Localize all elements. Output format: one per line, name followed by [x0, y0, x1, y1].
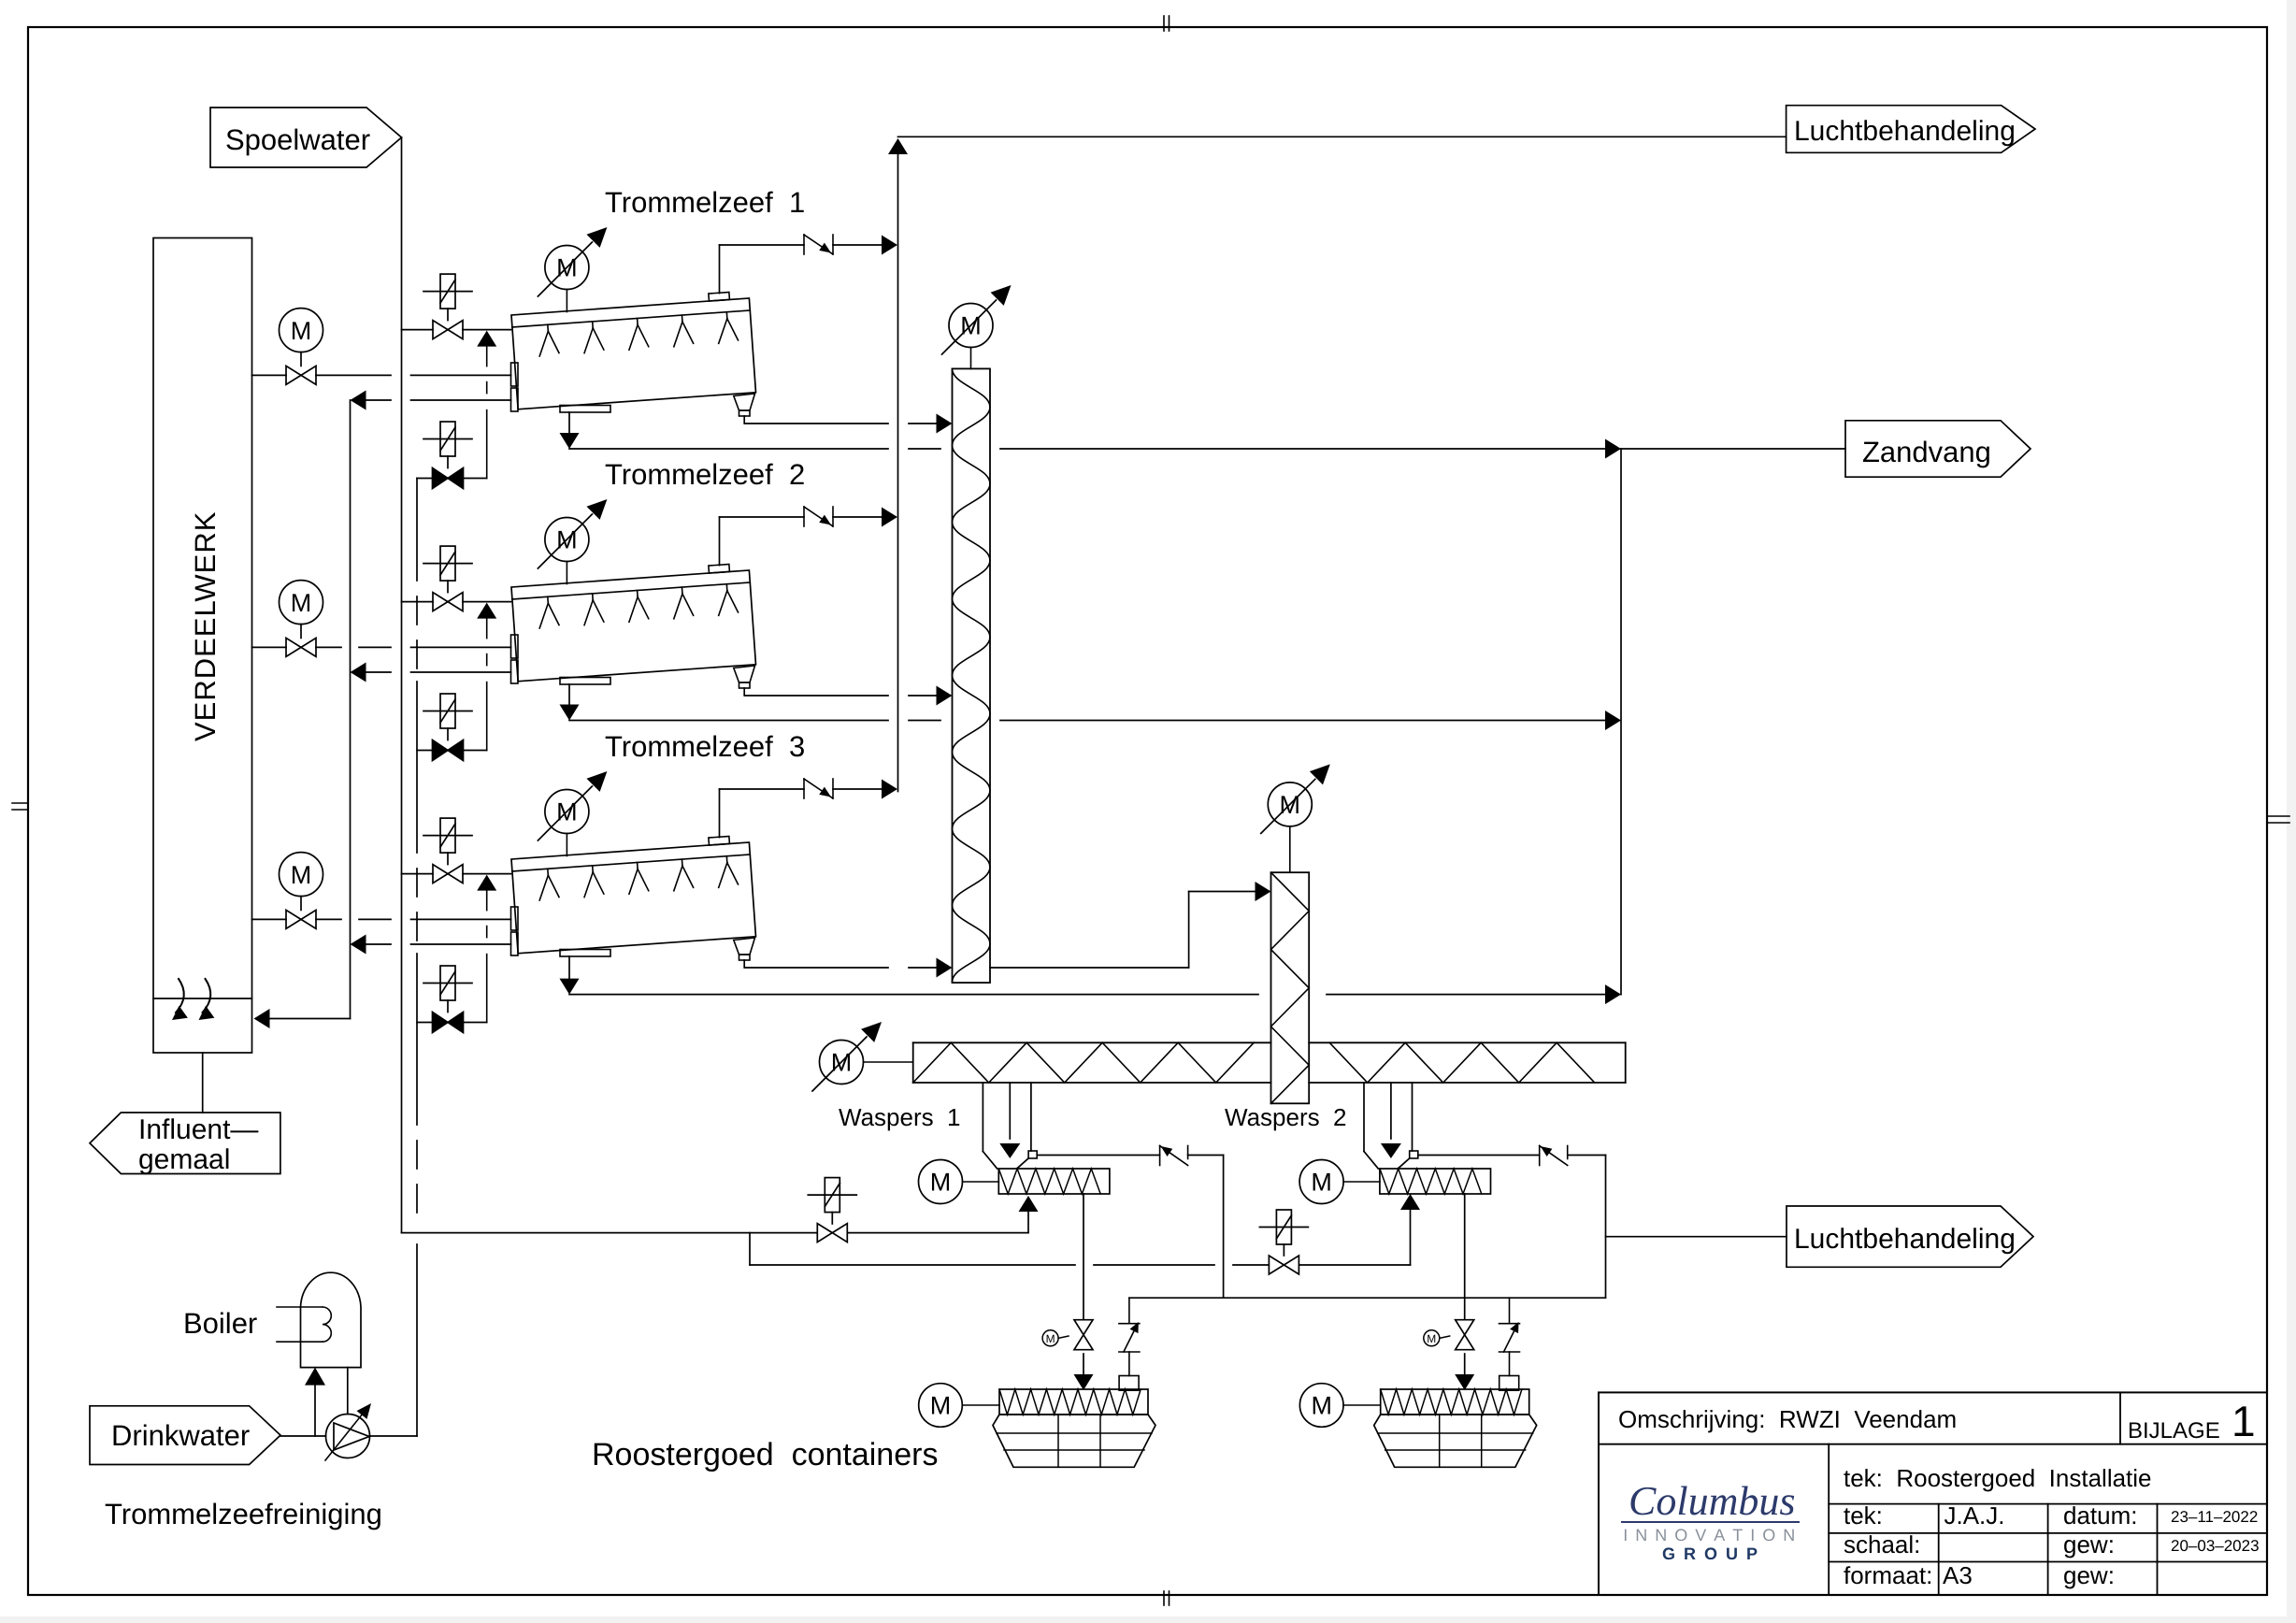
- boiler B1: [277, 1272, 361, 1367]
- svg-text:gew:: gew:: [2063, 1561, 2115, 1589]
- svg-text:M: M: [930, 1169, 952, 1197]
- svg-text:gemaal: gemaal: [138, 1144, 230, 1175]
- trommelzeef unit 1 drum sieve: [510, 291, 755, 416]
- wire sieved water drain trommelzeef 3: [560, 956, 580, 995]
- wire motor stem trommelzeef 2: [566, 562, 567, 584]
- valve V31 distribution from verdeelwerk: [252, 910, 511, 928]
- roostergoed container K1: [993, 1389, 1155, 1467]
- wire motor stem trommelzeef 3: [566, 834, 567, 856]
- wire water line to zandvang 2: [569, 711, 1621, 730]
- valve V13 reiniging flush valve (closed): [417, 422, 487, 489]
- motor M9 conveyor drive: [812, 1022, 882, 1091]
- motor M7 screw S1: [942, 285, 1012, 354]
- wire return line trommelzeef 3: [351, 935, 511, 955]
- motor M21 on distribution valve: [280, 581, 323, 639]
- wire motor stem trommelzeef 1: [566, 290, 567, 312]
- check valve CV1 trommelzeef 1 air line: [804, 235, 833, 254]
- wire wasper-1 flush riser + arrow: [1019, 1196, 1039, 1233]
- fold mark top: [1164, 16, 1170, 31]
- title text tek roostergoed installatie: [1844, 1464, 2152, 1492]
- svg-text:M: M: [1427, 1332, 1436, 1345]
- svg-text:I N N O V A T I O N: I N N O V A T I O N: [1623, 1526, 1797, 1544]
- wire zandvang collector vertical: [1621, 449, 1845, 995]
- wire to luchtbehandeling bottom flag: [1606, 1236, 1787, 1238]
- pump P1: [325, 1403, 371, 1460]
- motor m-W2 container valve actuator: [1424, 1330, 1450, 1346]
- svg-text:M: M: [291, 317, 312, 345]
- svg-text:Omschrijving: RWZI Veendam: Omschrijving: RWZI Veendam: [1618, 1405, 1957, 1433]
- wire pump to boiler coil return: [347, 1368, 349, 1415]
- svg-text:VERDEELWERK: VERDEELWERK: [189, 511, 222, 741]
- valve V23 reiniging flush valve (closed): [417, 694, 487, 761]
- valve V-W2 container inlet motor valve: [1456, 1320, 1474, 1350]
- wire sieved water drain trommelzeef 2: [560, 684, 580, 721]
- wire spray riser arrow trommelzeef 3: [477, 875, 496, 1023]
- motor M11 wasper W2: [1299, 1160, 1343, 1204]
- wire air collection header: [1129, 1297, 1606, 1299]
- title row schaal: [1844, 1530, 2260, 1558]
- svg-text:schaal:: schaal:: [1844, 1530, 1920, 1558]
- svg-text:Luchtbehandeling: Luchtbehandeling: [1794, 116, 2016, 147]
- wire motor stem screw S1: [970, 348, 972, 369]
- check valve CV2 trommelzeef 2 air line: [804, 507, 833, 526]
- title row tek: [1844, 1501, 2258, 1530]
- svg-text:formaat:: formaat:: [1844, 1561, 1932, 1589]
- svg-text:BIJLAGE: BIJLAGE: [2128, 1418, 2220, 1443]
- motor M13 container K2 screw: [1299, 1384, 1380, 1428]
- label Trommelzeef 1: [605, 186, 805, 219]
- motor M8 screw S2: [1261, 764, 1330, 833]
- wire water line to zandvang 3: [569, 984, 1621, 1004]
- title text BIJLAGE 1: [2128, 1397, 2256, 1445]
- svg-text:J.A.J.: J.A.J.: [1944, 1501, 2004, 1530]
- roostergoed container K2: [1374, 1389, 1537, 1467]
- logo Columbus script: [1622, 1478, 1799, 1524]
- fold mark left: [12, 803, 28, 810]
- svg-text:Waspers 1: Waspers 1: [839, 1103, 961, 1131]
- title text omschrijving: [1618, 1405, 1957, 1433]
- horizontal screenings conveyor C1: [913, 1042, 1626, 1083]
- motor M31 on distribution valve: [280, 853, 323, 911]
- flag Drinkwater: [90, 1406, 280, 1465]
- wire air outlet trommelzeef 3: [720, 780, 898, 838]
- logo GROUP: [1662, 1544, 1759, 1563]
- svg-text:gew:: gew:: [2063, 1530, 2115, 1558]
- flag Zandvang: [1845, 421, 2031, 477]
- valve wasper-1 flush solenoid valve V7: [808, 1178, 856, 1242]
- wire motor stem screw S2: [1289, 826, 1291, 872]
- wire screenings line trommelzeef 1 to screw: [744, 414, 952, 434]
- label Roostergoed containers: [592, 1437, 938, 1472]
- wire sieved water drain trommelzeef 1: [560, 412, 580, 449]
- label Trommelzeef 2: [605, 458, 805, 491]
- motor M12 trommelzeef 1 drive: [538, 227, 607, 296]
- relief valve container W1: [1119, 1298, 1140, 1390]
- verdeelwerk inlet curved arrows: [172, 979, 214, 1020]
- label Trommelzeef 3: [605, 730, 805, 763]
- svg-text:G R O U P: G R O U P: [1662, 1544, 1759, 1563]
- title block frame: [1599, 1392, 2267, 1595]
- check valve CV3 trommelzeef 3 air line: [804, 779, 833, 798]
- wire wasper W2 overflow line: [1419, 1156, 1606, 1299]
- svg-text:Trommelzeef 1: Trommelzeef 1: [605, 186, 805, 219]
- flag Luchtbehandeling top: [1787, 106, 2035, 153]
- valve V22 spoelwater spray solenoid valve: [402, 546, 511, 611]
- wire reiniging header vertical x446: [416, 479, 418, 1437]
- motor m-W1 container valve actuator: [1042, 1330, 1069, 1346]
- wire air outlet trommelzeef 1: [720, 236, 898, 294]
- svg-text:M: M: [1311, 1169, 1332, 1197]
- wire spoelwater waspers feed horizontal: [402, 1232, 1029, 1234]
- trommelzeef unit 3 drum sieve: [510, 835, 755, 960]
- wire screenings line trommelzeef 2 to screw: [744, 686, 952, 706]
- wire water line to zandvang 1: [569, 439, 1621, 459]
- motor M12 container K1 screw: [919, 1384, 999, 1428]
- relief valve container W2: [1500, 1298, 1520, 1390]
- svg-text:Columbus: Columbus: [1629, 1478, 1795, 1524]
- wasper W1 wash press: [983, 1083, 1110, 1194]
- svg-text:20–03–2023: 20–03–2023: [2171, 1537, 2260, 1555]
- verdeelwerk label VERDEELWERK: [189, 511, 222, 741]
- svg-text:Roostergoed containers: Roostergoed containers: [592, 1437, 938, 1472]
- svg-text:Trommelzeef 3: Trommelzeef 3: [605, 730, 805, 763]
- verdeelwerk tank: [153, 238, 252, 1054]
- vertical screw conveyor S1: [953, 368, 991, 983]
- valve V11 distribution from verdeelwerk: [252, 366, 511, 384]
- label Waspers 1: [839, 1103, 961, 1131]
- check valve CV5 wasper W2 overflow: [1540, 1146, 1568, 1166]
- vertical screw conveyor S2: [1271, 872, 1310, 1103]
- wire drinkwater to boiler + arrow: [305, 1368, 325, 1436]
- valve wasper-2 flush solenoid valve V8: [1259, 1210, 1308, 1274]
- wire return line trommelzeef 2: [351, 663, 511, 682]
- svg-text:Luchtbehandeling: Luchtbehandeling: [1794, 1224, 2016, 1255]
- svg-text:Trommelzeefreiniging: Trommelzeefreiniging: [105, 1498, 382, 1530]
- wire return collector vertical x374: [254, 400, 351, 1028]
- valve V-W1 container inlet motor valve: [1074, 1320, 1093, 1350]
- wire drinkwater-pump line: [280, 1435, 417, 1437]
- motor M11 on distribution valve: [280, 309, 323, 366]
- svg-text:M: M: [291, 861, 312, 889]
- svg-text:Spoelwater: Spoelwater: [225, 123, 370, 156]
- trommelzeef unit 2 drum sieve: [510, 563, 755, 688]
- svg-text:Influent—: Influent—: [138, 1114, 258, 1145]
- wire wasper W1 drain: [1074, 1194, 1094, 1390]
- flag Spoelwater: [210, 108, 402, 167]
- wire spoelwater main header vertical: [401, 137, 403, 1233]
- svg-text:Drinkwater: Drinkwater: [111, 1419, 250, 1452]
- motor M10 wasper W1: [919, 1160, 963, 1204]
- logo INNOVATION: [1623, 1526, 1797, 1544]
- svg-text:M: M: [930, 1392, 952, 1420]
- wire wasper-2 flush branch: [750, 1233, 1411, 1265]
- svg-text:M: M: [291, 589, 312, 617]
- valve V32 spoelwater spray solenoid valve: [402, 818, 511, 883]
- valve V33 reiniging flush valve (closed): [417, 966, 487, 1033]
- svg-text:Trommelzeef 2: Trommelzeef 2: [605, 458, 805, 491]
- check valve CV4 wasper W1 overflow: [1160, 1146, 1188, 1166]
- motor M22 trommelzeef 2 drive: [538, 499, 607, 568]
- svg-text:Zandvang: Zandvang: [1862, 436, 1991, 468]
- flag Influent-gemaal: [90, 1113, 280, 1175]
- title row formaat: [1844, 1561, 2115, 1589]
- svg-text:Waspers 2: Waspers 2: [1225, 1103, 1347, 1131]
- svg-text:A3: A3: [1943, 1561, 1973, 1589]
- label Waspers 2: [1225, 1103, 1347, 1131]
- wire air outlet trommelzeef 2: [720, 508, 898, 566]
- valve V12 spoelwater spray solenoid valve: [402, 274, 511, 339]
- svg-text:Boiler: Boiler: [183, 1307, 257, 1340]
- wire spray riser arrow trommelzeef 1: [477, 331, 496, 479]
- wire motor link conveyor: [864, 1061, 913, 1063]
- wire air header vertical: [888, 136, 1787, 791]
- fold mark right: [2267, 816, 2289, 823]
- svg-text:1: 1: [2231, 1397, 2256, 1445]
- wire motor link wasper W1: [963, 1181, 999, 1183]
- wire spray riser arrow trommelzeef 2: [477, 603, 496, 751]
- motor M32 trommelzeef 3 drive: [538, 771, 607, 840]
- svg-text:M: M: [1046, 1332, 1055, 1345]
- valve V21 distribution from verdeelwerk: [252, 638, 511, 656]
- wire wasper W1 overflow line: [1038, 1156, 1224, 1299]
- svg-text:tek: Roostergoed Installatie: tek: Roostergoed Installatie: [1844, 1464, 2152, 1492]
- wire wasper-2 flush riser + arrow: [1400, 1194, 1420, 1265]
- label Boiler: [183, 1307, 257, 1340]
- wire screw S1 outlet to screw S2: [990, 882, 1271, 968]
- svg-text:datum:: datum:: [2063, 1501, 2138, 1530]
- wasper W2 wash press: [1364, 1083, 1491, 1194]
- fold mark bottom: [1164, 1591, 1170, 1605]
- wire screenings line trommelzeef 3 to screw: [744, 958, 952, 978]
- wire wasper W2 drain: [1455, 1194, 1474, 1390]
- wire motor link wasper W2: [1343, 1181, 1380, 1183]
- wire verdeelwerk to influent flag: [202, 1053, 204, 1113]
- wire return line trommelzeef 1: [351, 391, 511, 410]
- label Trommelzeefreiniging: [105, 1498, 382, 1530]
- svg-text:M: M: [1311, 1392, 1332, 1420]
- svg-text:tek:: tek:: [1844, 1501, 1883, 1530]
- flag Luchtbehandeling bottom: [1787, 1206, 2033, 1267]
- svg-text:23–11–2022: 23–11–2022: [2171, 1508, 2258, 1526]
